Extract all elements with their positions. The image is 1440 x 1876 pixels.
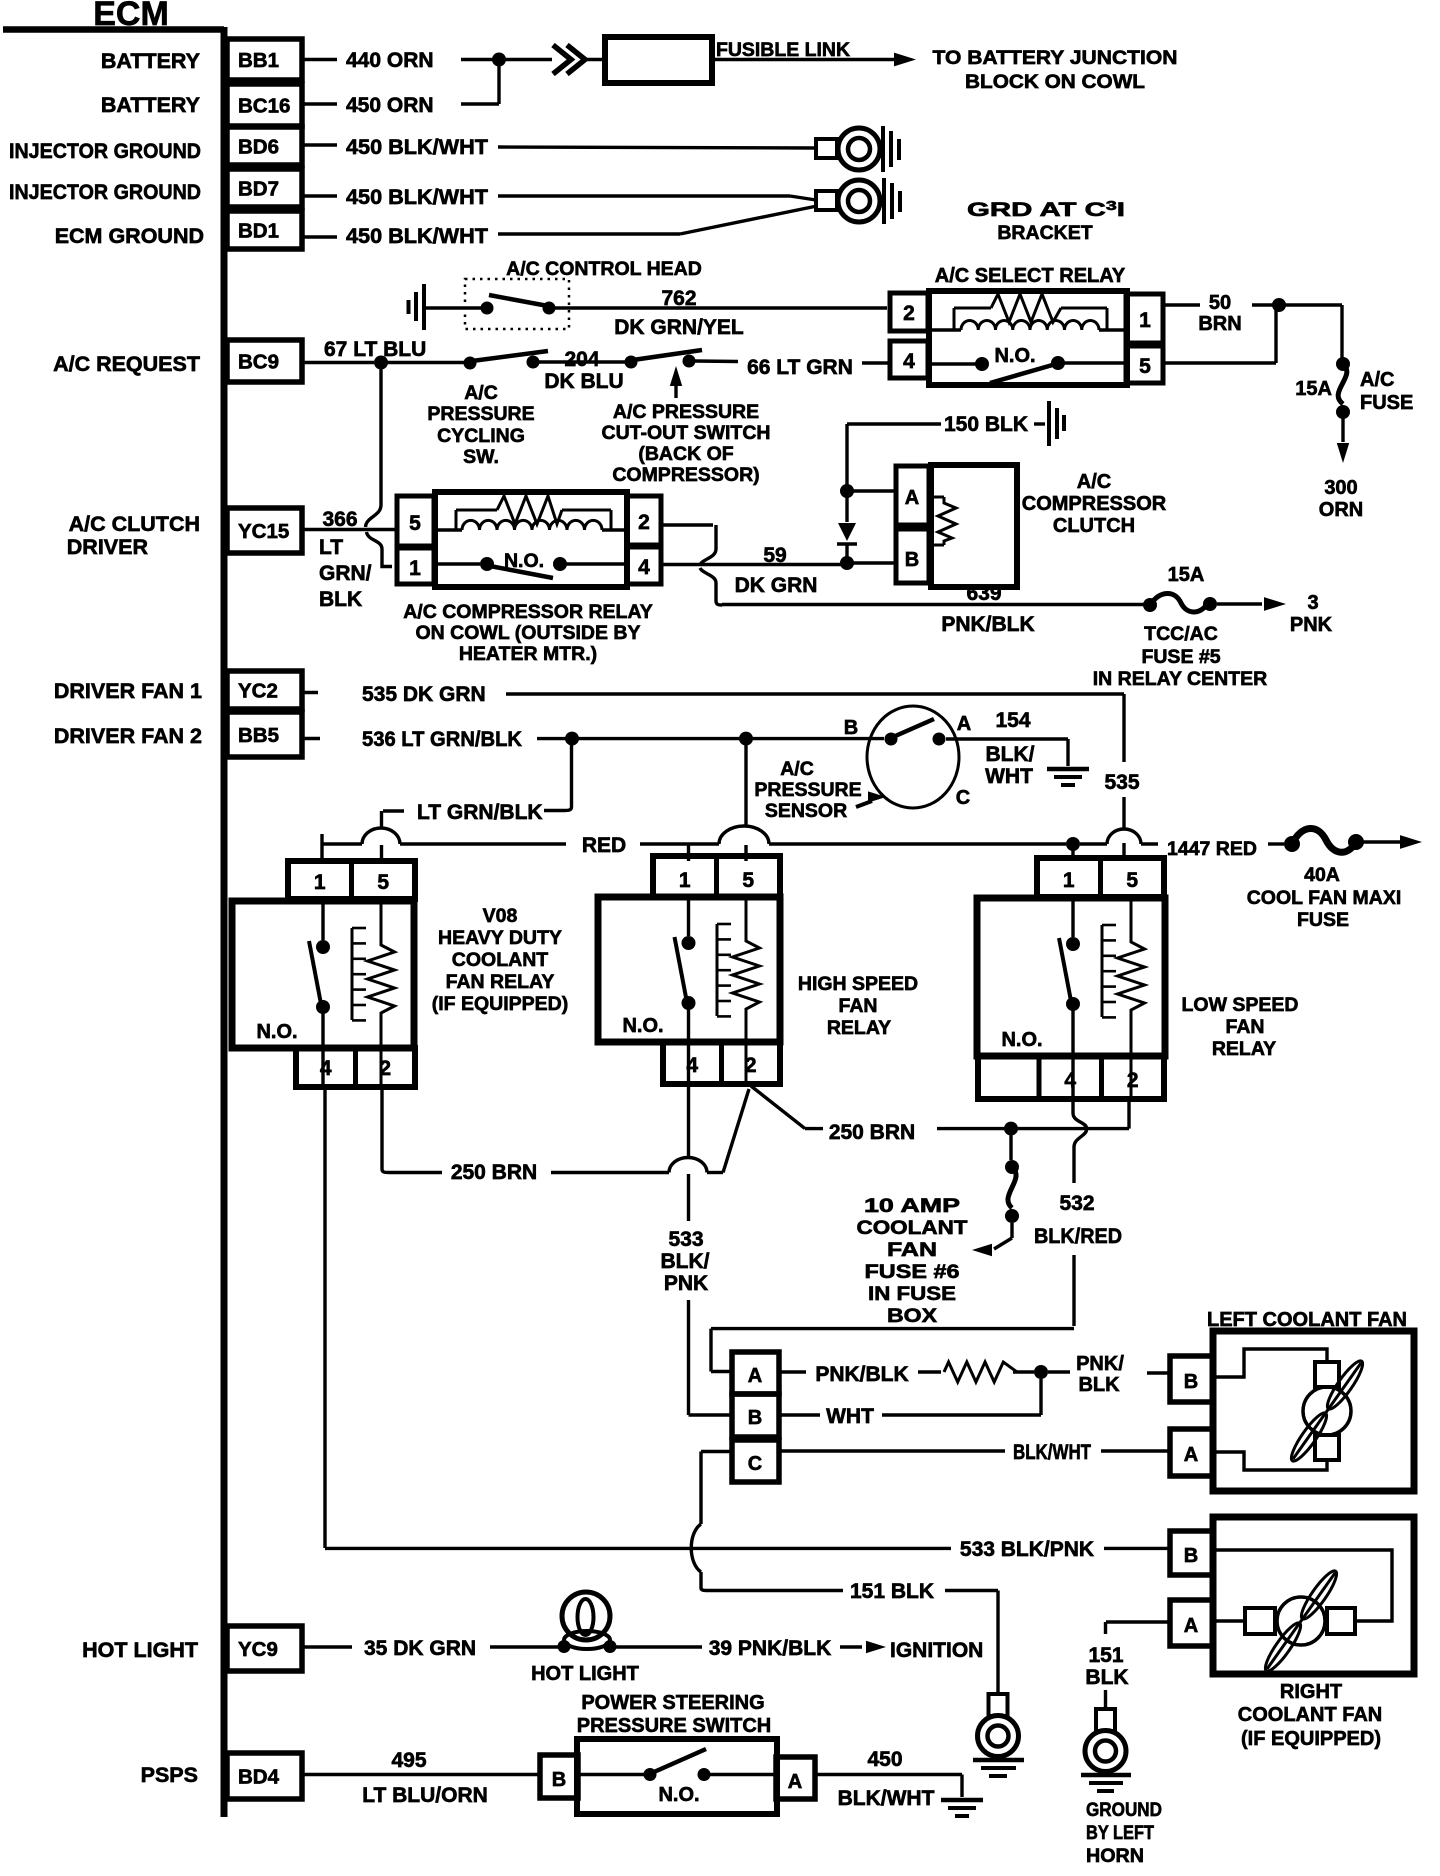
wire LT GRN/BLK drop into relay A pin 5 — [380, 845, 383, 861]
svg-text:YC9: YC9 — [238, 1638, 278, 1661]
A/C select relay pin 4 — [890, 341, 928, 378]
node junction 440/450 ORN — [492, 53, 506, 67]
svg-text:533: 533 — [668, 1228, 703, 1251]
A/C compressor clutch body — [931, 465, 1017, 587]
ECM pin box YC15 (A/C CLUTCH DRIVER) — [67, 508, 302, 559]
svg-text:COOLANT: COOLANT — [857, 1217, 968, 1239]
wire 39 PNK/BLK to ignition — [610, 1637, 983, 1662]
label FUSIBLE LINK — [716, 39, 850, 61]
relay K2 body — [598, 897, 780, 1042]
wire ground to control head switch — [424, 306, 487, 309]
svg-text:535 DK GRN: 535 DK GRN — [362, 683, 486, 706]
label 300 ORN — [1319, 477, 1363, 521]
svg-text:N.O.: N.O. — [622, 1015, 663, 1037]
svg-text:150 BLK: 150 BLK — [944, 413, 1028, 436]
svg-text:A/C REQUEST: A/C REQUEST — [53, 352, 200, 376]
wire WHT — [779, 1379, 1041, 1428]
svg-text:BLK/WHT: BLK/WHT — [838, 1787, 935, 1810]
svg-text:GRD AT C3I: GRD AT C3I — [967, 198, 1125, 221]
ECM pin box BC9 (A/C REQUEST) — [53, 340, 302, 382]
PSPS pin A — [776, 1757, 815, 1799]
node junction RED at low speed relay — [1066, 837, 1080, 851]
label A/C PRESSURE SENSOR with arrow — [754, 758, 886, 822]
relay K1 N.O. label — [256, 1021, 297, 1043]
connector pin A box — [732, 1352, 779, 1394]
label A/C CONTROL HEAD — [506, 258, 702, 280]
wire to A/C fuse — [1279, 305, 1342, 360]
svg-text:SW.: SW. — [463, 446, 499, 468]
A/C control head dotted box — [465, 279, 569, 329]
compressor relay pin 2 — [627, 496, 661, 545]
svg-text:TO BATTERY JUNCTION: TO BATTERY JUNCTION — [933, 47, 1178, 69]
wire BLK/WHT to left fan pin A — [779, 1441, 1170, 1464]
clutch pin B — [896, 529, 929, 583]
label 10 AMP COOLANT FAN FUSE #6 IN FUSE BOX — [857, 1195, 968, 1327]
svg-text:154: 154 — [995, 709, 1030, 732]
svg-text:1: 1 — [1063, 869, 1075, 892]
svg-text:FAN: FAN — [839, 995, 878, 1017]
svg-text:BB5: BB5 — [238, 724, 279, 747]
svg-text:450 ORN: 450 ORN — [346, 94, 434, 117]
svg-text:(IF EQUIPPED): (IF EQUIPPED) — [432, 993, 569, 1015]
svg-text:FAN: FAN — [1226, 1016, 1265, 1038]
svg-text:151 BLK: 151 BLK — [850, 1580, 934, 1603]
svg-text:15A: 15A — [1168, 564, 1205, 586]
relay K2 bottom pins frame — [663, 1042, 780, 1084]
svg-text:39 PNK/BLK: 39 PNK/BLK — [709, 1637, 832, 1660]
node junction PNK/BLK — [1034, 1365, 1048, 1379]
svg-text:FUSE: FUSE — [1297, 909, 1349, 931]
svg-text:PSPS: PSPS — [141, 1763, 198, 1787]
pressure sensor pin labels A B C — [844, 713, 971, 809]
wire 250 BRN corner up to relay K3 pin 2 — [1127, 1099, 1130, 1129]
relay K1 top pins frame — [288, 861, 415, 899]
label 3 PNK — [1290, 592, 1333, 636]
wire from compressor relay pin 2 down crossing to 639 wire — [661, 525, 722, 605]
svg-text:66 LT GRN: 66 LT GRN — [747, 356, 853, 379]
svg-text:BLK/: BLK/ — [986, 743, 1035, 766]
compressor relay pin 5 — [397, 496, 434, 546]
label 15A A/C FUSE — [1295, 369, 1413, 414]
svg-text:3: 3 — [1307, 592, 1318, 614]
ground symbol 450 BLK/WHT — [941, 1800, 983, 1816]
svg-text:ECM GROUND: ECM GROUND — [55, 224, 204, 248]
left fan pin A — [1170, 1429, 1213, 1476]
svg-text:BLK/WHT: BLK/WHT — [1013, 1441, 1091, 1464]
svg-text:DK GRN/YEL: DK GRN/YEL — [614, 316, 744, 339]
diode — [837, 491, 857, 557]
ECM pin box YC9 (HOT LIGHT) — [82, 1626, 302, 1671]
svg-text:GROUND: GROUND — [1086, 1799, 1162, 1821]
label TCC/AC FUSE #5 IN RELAY CENTER — [1093, 623, 1267, 690]
svg-text:5: 5 — [1139, 355, 1151, 378]
svg-text:50: 50 — [1209, 292, 1231, 314]
svg-text:A/C CONTROL HEAD: A/C CONTROL HEAD — [506, 258, 702, 280]
svg-text:A/C: A/C — [780, 758, 814, 780]
svg-text:WHT: WHT — [985, 765, 1033, 788]
svg-text:DK BLU: DK BLU — [544, 370, 623, 393]
svg-text:COOLANT: COOLANT — [452, 949, 548, 971]
svg-text:450 BLK/WHT: 450 BLK/WHT — [346, 136, 488, 159]
node junction 50 BRN — [1272, 298, 1286, 312]
A/C pressure sensor body — [867, 706, 959, 808]
svg-text:HIGH SPEED: HIGH SPEED — [798, 973, 918, 995]
wire 450 ORN riser to junction — [497, 60, 500, 105]
svg-text:LT GRN/BLK: LT GRN/BLK — [417, 801, 543, 824]
svg-text:COMPRESSOR: COMPRESSOR — [1022, 493, 1167, 515]
wire diode branch — [845, 424, 848, 485]
relay K2 top pins frame — [653, 856, 780, 897]
svg-text:DK GRN: DK GRN — [735, 574, 818, 597]
svg-text:N.O.: N.O. — [1001, 1029, 1042, 1051]
label HIGH SPEED FAN RELAY — [798, 973, 918, 1039]
svg-text:1: 1 — [409, 557, 421, 580]
svg-text:BLK: BLK — [1085, 1666, 1128, 1689]
svg-text:GRN/: GRN/ — [319, 562, 372, 585]
compressor relay N.O. contact — [434, 550, 627, 578]
cut-out switch pointer arrow — [670, 366, 682, 398]
svg-text:N.O.: N.O. — [658, 1784, 699, 1806]
svg-text:RELAY: RELAY — [827, 1017, 891, 1039]
svg-text:BLOCK ON COWL: BLOCK ON COWL — [965, 71, 1145, 93]
ring terminal ground by left horn — [1085, 1709, 1126, 1772]
svg-text:ON COWL (OUTSIDE BY: ON COWL (OUTSIDE BY — [416, 622, 641, 644]
svg-text:A/C: A/C — [1360, 369, 1394, 391]
wire 450 ORN from BC16 — [303, 94, 499, 117]
svg-text:LOW SPEED: LOW SPEED — [1181, 994, 1298, 1016]
svg-text:WHT: WHT — [826, 1405, 874, 1428]
svg-text:CYCLING: CYCLING — [437, 425, 525, 447]
ECM pin box BD4 (PSPS) — [141, 1753, 302, 1799]
wire 639 PNK/BLK — [722, 582, 1144, 636]
label GRD AT C3I BRACKET — [967, 198, 1125, 244]
svg-text:COMPRESSOR): COMPRESSOR) — [612, 464, 759, 486]
svg-text:15A: 15A — [1295, 378, 1332, 400]
svg-text:DRIVER: DRIVER — [67, 535, 149, 559]
wire 250 BRN upper — [805, 1121, 1129, 1144]
svg-text:762: 762 — [661, 287, 696, 310]
relay K1 bottom pins frame — [296, 1048, 415, 1087]
svg-text:1447 RED: 1447 RED — [1167, 838, 1257, 860]
svg-text:FUSE #5: FUSE #5 — [1141, 646, 1220, 668]
wire relay C pin 1 drop from RED junction — [1071, 844, 1074, 858]
svg-text:BRACKET: BRACKET — [997, 222, 1092, 244]
svg-text:250 BRN: 250 BRN — [829, 1121, 915, 1144]
svg-text:N.O.: N.O. — [994, 345, 1035, 367]
svg-text:YC15: YC15 — [238, 520, 289, 543]
wire BC9 branch down to compressor relay pin 1 — [366, 363, 393, 567]
svg-text:440 ORN: 440 ORN — [346, 49, 434, 72]
relay K3 contact — [1059, 897, 1080, 1099]
svg-text:5: 5 — [742, 869, 754, 892]
wire 250 BRN lower — [389, 1089, 749, 1184]
ECM pin box BB5 (DRIVER FAN 2) — [54, 712, 302, 757]
compressor relay pin 4 — [627, 547, 661, 584]
ECM label — [93, 0, 169, 33]
svg-text:BC16: BC16 — [238, 95, 290, 118]
right fan motor — [1245, 1567, 1355, 1675]
svg-text:2: 2 — [903, 302, 915, 325]
coolant fan fuse #6 10A — [972, 1129, 1019, 1257]
wire 535 vertical to low speed relay — [1104, 694, 1139, 829]
svg-text:FUSE #6: FUSE #6 — [865, 1261, 960, 1283]
svg-text:LT BLU/ORN: LT BLU/ORN — [362, 1784, 488, 1807]
svg-text:PNK/BLK: PNK/BLK — [941, 613, 1034, 636]
svg-text:2: 2 — [1127, 1069, 1139, 1092]
wire connector C to 151 BLK — [691, 1452, 998, 1694]
svg-text:CUT-OUT SWITCH: CUT-OUT SWITCH — [602, 422, 771, 444]
wire relay K1 pin 2 to 250 BRN — [382, 1087, 389, 1173]
svg-text:IGNITION: IGNITION — [890, 1639, 983, 1662]
A/C select relay body — [929, 291, 1127, 385]
svg-text:5: 5 — [377, 871, 389, 894]
svg-text:BATTERY: BATTERY — [101, 93, 200, 117]
ring terminal ground 1 — [816, 126, 899, 172]
svg-text:1: 1 — [679, 869, 691, 892]
svg-text:FUSIBLE LINK: FUSIBLE LINK — [716, 39, 850, 61]
svg-text:A: A — [957, 713, 971, 735]
svg-text:535: 535 — [1104, 771, 1139, 794]
label A/C SELECT RELAY — [935, 265, 1126, 287]
svg-text:B: B — [844, 717, 858, 739]
wire 533 BLK/PNK to right coolant fan — [325, 1538, 1170, 1561]
ECM pin box BB1 (BATTERY) — [101, 39, 302, 80]
svg-text:A: A — [1184, 1444, 1198, 1466]
wire select relay pin 5 to junction — [1163, 305, 1276, 363]
svg-text:A: A — [788, 1771, 802, 1793]
wire 450 BLK/WHT from BD6 — [303, 136, 817, 159]
node junction 536 at LT GRN/BLK branch — [565, 732, 579, 746]
svg-text:BD4: BD4 — [238, 1766, 280, 1789]
connector pin C box — [732, 1440, 779, 1482]
wire junction to left fan pin B — [1048, 1353, 1170, 1396]
right fan internal wiring — [1213, 1550, 1392, 1621]
wire junction to clutch pin B — [847, 561, 896, 564]
svg-text:450: 450 — [867, 1748, 902, 1771]
ground symbol 154 — [1047, 769, 1089, 785]
label 762 DK GRN/YEL — [614, 287, 744, 339]
svg-text:BB1: BB1 — [238, 49, 279, 72]
svg-text:HEATER MTR.): HEATER MTR.) — [459, 643, 597, 665]
svg-text:(IF EQUIPPED): (IF EQUIPPED) — [1241, 1728, 1381, 1750]
svg-text:INJECTOR GROUND: INJECTOR GROUND — [9, 139, 201, 163]
right fan pin A — [1170, 1600, 1213, 1646]
svg-text:10 AMP: 10 AMP — [864, 1195, 960, 1217]
svg-text:(BACK OF: (BACK OF — [638, 443, 733, 465]
relay K3 coil — [1102, 897, 1145, 1099]
label LOW SPEED FAN RELAY — [1181, 994, 1298, 1060]
wire to fusible link — [499, 58, 552, 61]
svg-text:IN RELAY CENTER: IN RELAY CENTER — [1093, 668, 1267, 690]
svg-text:A/C COMPRESSOR RELAY: A/C COMPRESSOR RELAY — [403, 601, 653, 623]
relay K1 contact — [309, 899, 330, 1087]
right fan pin B — [1170, 1531, 1213, 1575]
svg-text:67 LT BLU: 67 LT BLU — [324, 338, 426, 361]
svg-text:BOX: BOX — [887, 1305, 937, 1327]
svg-text:COOLANT FAN: COOLANT FAN — [1238, 1704, 1382, 1726]
svg-text:366: 366 — [322, 508, 357, 531]
svg-text:PNK: PNK — [1290, 614, 1333, 636]
svg-text:PNK/: PNK/ — [1076, 1353, 1124, 1375]
pressure sensor contacts — [885, 719, 946, 746]
svg-text:BC9: BC9 — [238, 351, 279, 374]
relay K2 contact — [675, 897, 696, 1084]
svg-text:BY LEFT: BY LEFT — [1086, 1822, 1154, 1844]
A/C select relay pin 1 — [1126, 294, 1163, 343]
svg-text:V08: V08 — [483, 905, 518, 927]
svg-text:CLUTCH: CLUTCH — [1053, 515, 1135, 537]
svg-text:PRESSURE: PRESSURE — [754, 779, 861, 801]
wire to cycling switch — [381, 361, 464, 364]
label RIGHT COOLANT FAN (IF EQUIPPED) — [1238, 1681, 1382, 1750]
A/C select relay pin 5 — [1126, 346, 1163, 383]
svg-text:250 BRN: 250 BRN — [451, 1161, 537, 1184]
svg-text:450 BLK/WHT: 450 BLK/WHT — [346, 186, 488, 209]
svg-text:C: C — [748, 1453, 762, 1475]
svg-text:YC2: YC2 — [238, 680, 278, 703]
label V08 HEAVY DUTY COOLANT FAN RELAY (IF EQUIPPED) — [432, 905, 569, 1015]
node junction at clutch pin A — [840, 484, 854, 498]
svg-text:1: 1 — [1139, 309, 1151, 332]
svg-text:FAN RELAY: FAN RELAY — [446, 971, 555, 993]
svg-text:HOT LIGHT: HOT LIGHT — [82, 1638, 198, 1662]
node junction 536 at high speed relay branch — [739, 732, 753, 746]
svg-text:BLK/RED: BLK/RED — [1034, 1225, 1122, 1248]
svg-text:N.O.: N.O. — [256, 1021, 297, 1043]
wire 154 BLK/WHT from sensor A to ground — [946, 739, 1068, 766]
right coolant fan body — [1213, 1517, 1414, 1674]
svg-text:BATTERY: BATTERY — [101, 49, 200, 73]
svg-text:A/C: A/C — [464, 382, 498, 404]
wire 536 drop into relay B pin 5 — [744, 739, 747, 861]
label 40A COOL FAN MAXI FUSE — [1247, 864, 1402, 931]
svg-text:532: 532 — [1059, 1192, 1094, 1215]
left fan pin B — [1170, 1356, 1213, 1402]
A/C compressor relay body — [435, 492, 627, 587]
wire LT GRN/BLK branch — [382, 739, 572, 829]
wire 762 DK GRN/YEL to select relay pin 2 — [549, 306, 887, 309]
fusible link box — [585, 37, 712, 83]
wire 59 DK GRN from pin 4 to clutch — [661, 544, 841, 597]
left fan internal wiring — [1213, 1349, 1327, 1470]
wire relay K2 pin 2 diagonal to 250 BRN upper — [751, 1086, 805, 1129]
ECM pin box BD6 (INJECTOR GROUND) — [9, 127, 302, 165]
wire 533 BLK/PNK into connector B — [0, 0, 1, 1]
svg-text:5: 5 — [409, 512, 421, 535]
compressor relay coil — [434, 496, 627, 530]
svg-text:A/C CLUTCH: A/C CLUTCH — [69, 512, 200, 536]
wire PNK/BLK with resistor — [779, 1362, 1034, 1386]
svg-text:PRESSURE SWITCH: PRESSURE SWITCH — [577, 1715, 771, 1737]
label HOT LIGHT under lamp — [531, 1663, 639, 1685]
left fan motor — [1287, 1357, 1368, 1465]
connector pin B box — [732, 1394, 779, 1437]
ground bars under 151 BLK ring — [973, 1760, 1024, 1776]
svg-text:A: A — [905, 487, 919, 509]
ECM connector vertical line — [221, 27, 228, 1817]
clutch pin A — [896, 466, 929, 525]
A/C fuse 15A — [1336, 357, 1350, 463]
svg-text:PRESSURE: PRESSURE — [427, 403, 534, 425]
svg-text:BLK: BLK — [1078, 1374, 1120, 1396]
relay K3 bottom pins frame — [978, 1056, 1164, 1099]
PSPS pin B — [540, 1755, 578, 1798]
svg-text:4: 4 — [903, 350, 915, 373]
ECM pin box BD1 (ECM GROUND) — [55, 211, 302, 249]
wire junction to clutch pin A — [847, 489, 896, 492]
wire relay K2 pin 4 drop 533 BLK/PNK — [661, 1084, 733, 1415]
svg-text:2: 2 — [638, 511, 650, 534]
compressor relay pin 1 — [397, 548, 434, 584]
svg-text:A/C SELECT RELAY: A/C SELECT RELAY — [935, 265, 1126, 287]
relay K3 N.O. label — [1001, 1029, 1042, 1051]
PSPS N.O. contact — [578, 1749, 776, 1806]
svg-text:35 DK GRN: 35 DK GRN — [364, 1637, 476, 1660]
relay K1 body — [232, 901, 414, 1048]
svg-text:PNK/BLK: PNK/BLK — [815, 1363, 908, 1386]
ring terminal ground 151 BLK — [978, 1694, 1019, 1757]
svg-text:1: 1 — [314, 871, 326, 894]
wire 50 BRN from select relay pin 1 — [1163, 292, 1279, 335]
svg-text:RIGHT: RIGHT — [1280, 1681, 1342, 1703]
svg-text:40A: 40A — [1304, 864, 1340, 886]
wire relay B pin 1 stub to RED — [687, 844, 690, 861]
label A/C COMPRESSOR CLUTCH — [1022, 471, 1167, 537]
svg-text:FAN: FAN — [887, 1239, 937, 1261]
label 15A TCC/AC fuse — [1168, 564, 1205, 586]
label POWER STEERING PRESSURE SWITCH — [577, 1692, 771, 1737]
svg-text:FUSE: FUSE — [1360, 392, 1413, 414]
relay K2 N.O. label — [622, 1015, 663, 1037]
hot light lamp — [558, 1592, 617, 1653]
svg-text:B: B — [552, 1769, 566, 1791]
label GROUND BY LEFT HORN — [1086, 1799, 1162, 1867]
svg-text:POWER STEERING: POWER STEERING — [581, 1692, 764, 1714]
node junction 250 BRN at fuse 6 — [1004, 1122, 1018, 1136]
svg-text:495: 495 — [391, 1749, 426, 1772]
wire 495 LT BLU/ORN from BD4 — [302, 1749, 540, 1807]
svg-text:59: 59 — [763, 544, 786, 567]
svg-text:BRN: BRN — [1198, 313, 1241, 335]
node junction BC9 — [374, 356, 388, 370]
svg-text:4: 4 — [638, 556, 650, 579]
wire relay K1 pin 4 long drop (533 BLK/PNK) — [323, 1087, 326, 1548]
svg-text:B: B — [748, 1407, 762, 1429]
wire RED rail — [322, 826, 1066, 860]
svg-text:INJECTOR GROUND: INJECTOR GROUND — [9, 180, 201, 204]
svg-text:SENSOR: SENSOR — [765, 800, 847, 822]
svg-text:RELAY: RELAY — [1212, 1038, 1276, 1060]
svg-text:DRIVER FAN 2: DRIVER FAN 2 — [54, 724, 202, 748]
wire 450 BLK/WHT from PSPS pin A to ground — [815, 1748, 962, 1810]
left coolant fan body — [1213, 1331, 1414, 1491]
wire 366 LT GRN/BLK from YC15 — [304, 508, 397, 611]
label 1447 RED — [1167, 838, 1257, 860]
svg-text:A: A — [748, 1365, 762, 1387]
svg-text:B: B — [905, 549, 919, 571]
svg-text:A/C: A/C — [1077, 471, 1111, 493]
control head switch — [481, 295, 556, 315]
svg-text:BLK: BLK — [319, 588, 362, 611]
svg-text:HOT LIGHT: HOT LIGHT — [531, 1663, 639, 1685]
wire 535 DK GRN from YC2 — [301, 683, 1124, 706]
wire right fan pin A to 151 BLK ground — [1085, 1622, 1170, 1708]
svg-text:BLK/: BLK/ — [661, 1250, 710, 1273]
wire 204 DK BLU — [539, 348, 625, 393]
svg-text:300: 300 — [1324, 477, 1357, 499]
ECM pin box BC16 (BATTERY) — [101, 84, 302, 126]
svg-text:B: B — [1184, 1545, 1198, 1567]
